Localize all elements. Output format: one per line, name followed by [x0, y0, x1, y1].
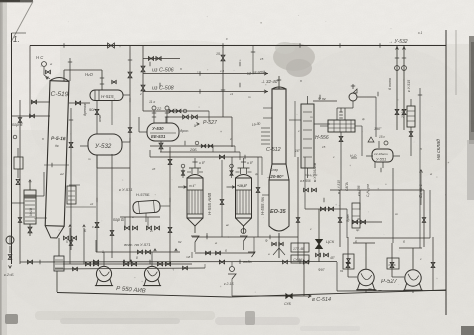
svg-text:дрос.: дрос. — [180, 129, 189, 133]
svg-text:15: 15 — [216, 52, 220, 56]
svg-text:16°: 16° — [295, 149, 301, 153]
svg-text:т 4°: т 4° — [189, 184, 196, 188]
svg-text:Р-5-16: Р-5-16 — [51, 136, 66, 142]
svg-text:всас. на У-571: всас. на У-571 — [124, 242, 151, 247]
svg-text:б1: б1 — [340, 269, 344, 273]
svg-text:в С-514: в С-514 — [312, 297, 331, 303]
svg-text:1: 1 — [102, 250, 104, 254]
svg-text:ЦСК: ЦСК — [326, 239, 335, 244]
svg-text:на склад: на склад — [436, 139, 442, 160]
svg-text:→20-90°: →20-90° — [266, 174, 284, 179]
svg-text:м.к У-515: м.к У-515 — [337, 180, 341, 194]
svg-text:Р-527: Р-527 — [381, 279, 398, 285]
svg-text:5: 5 — [66, 240, 68, 244]
svg-text:и 8°: и 8° — [199, 161, 206, 165]
svg-text:15: 15 — [260, 57, 264, 61]
svg-text:50/: 50/ — [89, 107, 95, 112]
svg-text:6 тона: 6 тона — [388, 78, 392, 90]
svg-text:45°: 45° — [330, 256, 336, 260]
svg-text:дренаж: дренаж — [83, 103, 87, 116]
svg-text:→ У-532: → У-532 — [388, 39, 408, 45]
svg-text:ЕЕ-531: ЕЕ-531 — [151, 134, 166, 139]
svg-text:б: б — [403, 240, 405, 244]
svg-text:дрен: дрен — [346, 214, 350, 222]
svg-text:+19,8°: +19,8° — [237, 184, 248, 188]
svg-text:пк: пк — [55, 144, 59, 148]
svg-text:вс: вс — [226, 223, 230, 227]
svg-text:15: 15 — [322, 145, 326, 149]
svg-text:У-551: У-551 — [376, 157, 386, 162]
svg-text:т8: т8 — [186, 255, 190, 259]
svg-text:из С-508: из С-508 — [152, 86, 174, 92]
svg-text:др: др — [356, 228, 360, 232]
svg-text:х2: х2 — [89, 202, 94, 206]
svg-text:Ф97: Ф97 — [318, 268, 325, 272]
svg-text:2: 2 — [139, 92, 142, 96]
svg-text:30: 30 — [357, 217, 361, 221]
svg-text:↑: ↑ — [183, 172, 185, 177]
svg-text:х1: х1 — [229, 92, 234, 96]
svg-text:к и 556: к и 556 — [357, 185, 361, 196]
svg-text:САПА: САПА — [345, 182, 349, 191]
svg-text:У-530: У-530 — [152, 126, 164, 131]
svg-text:С₃Н₆ усл: С₃Н₆ усл — [305, 173, 318, 177]
svg-text:190°: 190° — [374, 127, 382, 131]
svg-text:Н-575Б: Н-575Б — [136, 192, 150, 197]
svg-text:к У-515: к У-515 — [407, 80, 411, 92]
svg-text:1.: 1. — [13, 35, 20, 44]
svg-text:20Б: 20Б — [189, 148, 197, 152]
svg-text:к.2=Б: к.2=Б — [4, 273, 14, 277]
svg-text:хб: хб — [151, 167, 156, 171]
svg-text:кх: кх — [150, 229, 153, 233]
svg-text:х: х — [225, 37, 228, 41]
svg-text:С₃Н₆ усл: С₃Н₆ усл — [366, 184, 370, 197]
svg-text:пар Б: пар Б — [113, 217, 124, 222]
svg-text:х.2: х.2 — [204, 251, 209, 255]
svg-text:11 к: 11 к — [149, 100, 155, 104]
svg-text:Н₂О: Н₂О — [350, 154, 357, 158]
svg-text:20-10: 20-10 — [401, 110, 405, 119]
svg-text:№10: №10 — [29, 208, 33, 216]
svg-text:Р-527: Р-527 — [203, 120, 218, 126]
svg-text:22: 22 — [156, 107, 162, 111]
svg-text:Н-556: Н-556 — [315, 135, 329, 141]
svg-text:15 с: 15 с — [379, 135, 385, 139]
svg-text:б: б — [355, 240, 357, 244]
svg-text:Н-515: Н-515 — [101, 94, 114, 99]
svg-text:к У-571: к У-571 — [119, 187, 133, 192]
svg-text:Н2О: Н2О — [85, 72, 94, 77]
svg-text:У-532: У-532 — [94, 143, 112, 150]
svg-text:С-519: С-519 — [50, 91, 68, 99]
svg-text:х: х — [91, 225, 94, 229]
svg-text:из С-506: из С-506 — [152, 68, 174, 74]
svg-text:ж2: ж2 — [59, 172, 64, 176]
svg-text:Н-555 тк: Н-555 тк — [260, 196, 265, 215]
svg-text:12-18ати: 12-18ати — [374, 152, 388, 156]
svg-text:х: х — [242, 227, 245, 231]
svg-text:ЕО-35: ЕО-35 — [270, 209, 287, 215]
svg-text:17У-4Б: 17У-4Б — [293, 247, 305, 251]
svg-text:СУБ: СУБ — [284, 302, 292, 306]
svg-text:Н-555 АИВ: Н-555 АИВ — [207, 193, 212, 215]
svg-text:↑: ↑ — [231, 172, 233, 177]
svg-text:8: 8 — [136, 256, 138, 260]
svg-text:к 2-1Б: к 2-1Б — [224, 282, 234, 286]
svg-text:б: б — [225, 249, 227, 253]
svg-text:х.8: х.8 — [219, 69, 224, 73]
svg-text:Н С: Н С — [36, 55, 44, 60]
svg-text:Ф пг: Ф пг — [318, 97, 326, 101]
svg-text:х.1: х.1 — [417, 31, 422, 35]
svg-text:С₄ на с: С₄ на с — [418, 183, 423, 198]
svg-text:а в 556: а в 556 — [300, 179, 311, 183]
svg-text:С-512: С-512 — [266, 147, 281, 153]
svg-text:и 8°: и 8° — [247, 161, 254, 165]
svg-text:СУ56: СУ56 — [389, 263, 396, 267]
svg-text:Снар: Снар — [270, 168, 278, 172]
svg-text:атм: атм — [98, 114, 102, 122]
svg-text:⊥ 32-40°: ⊥ 32-40° — [261, 79, 279, 84]
svg-text:↑: ↑ — [172, 267, 174, 272]
svg-text:б2: б2 — [178, 240, 182, 244]
